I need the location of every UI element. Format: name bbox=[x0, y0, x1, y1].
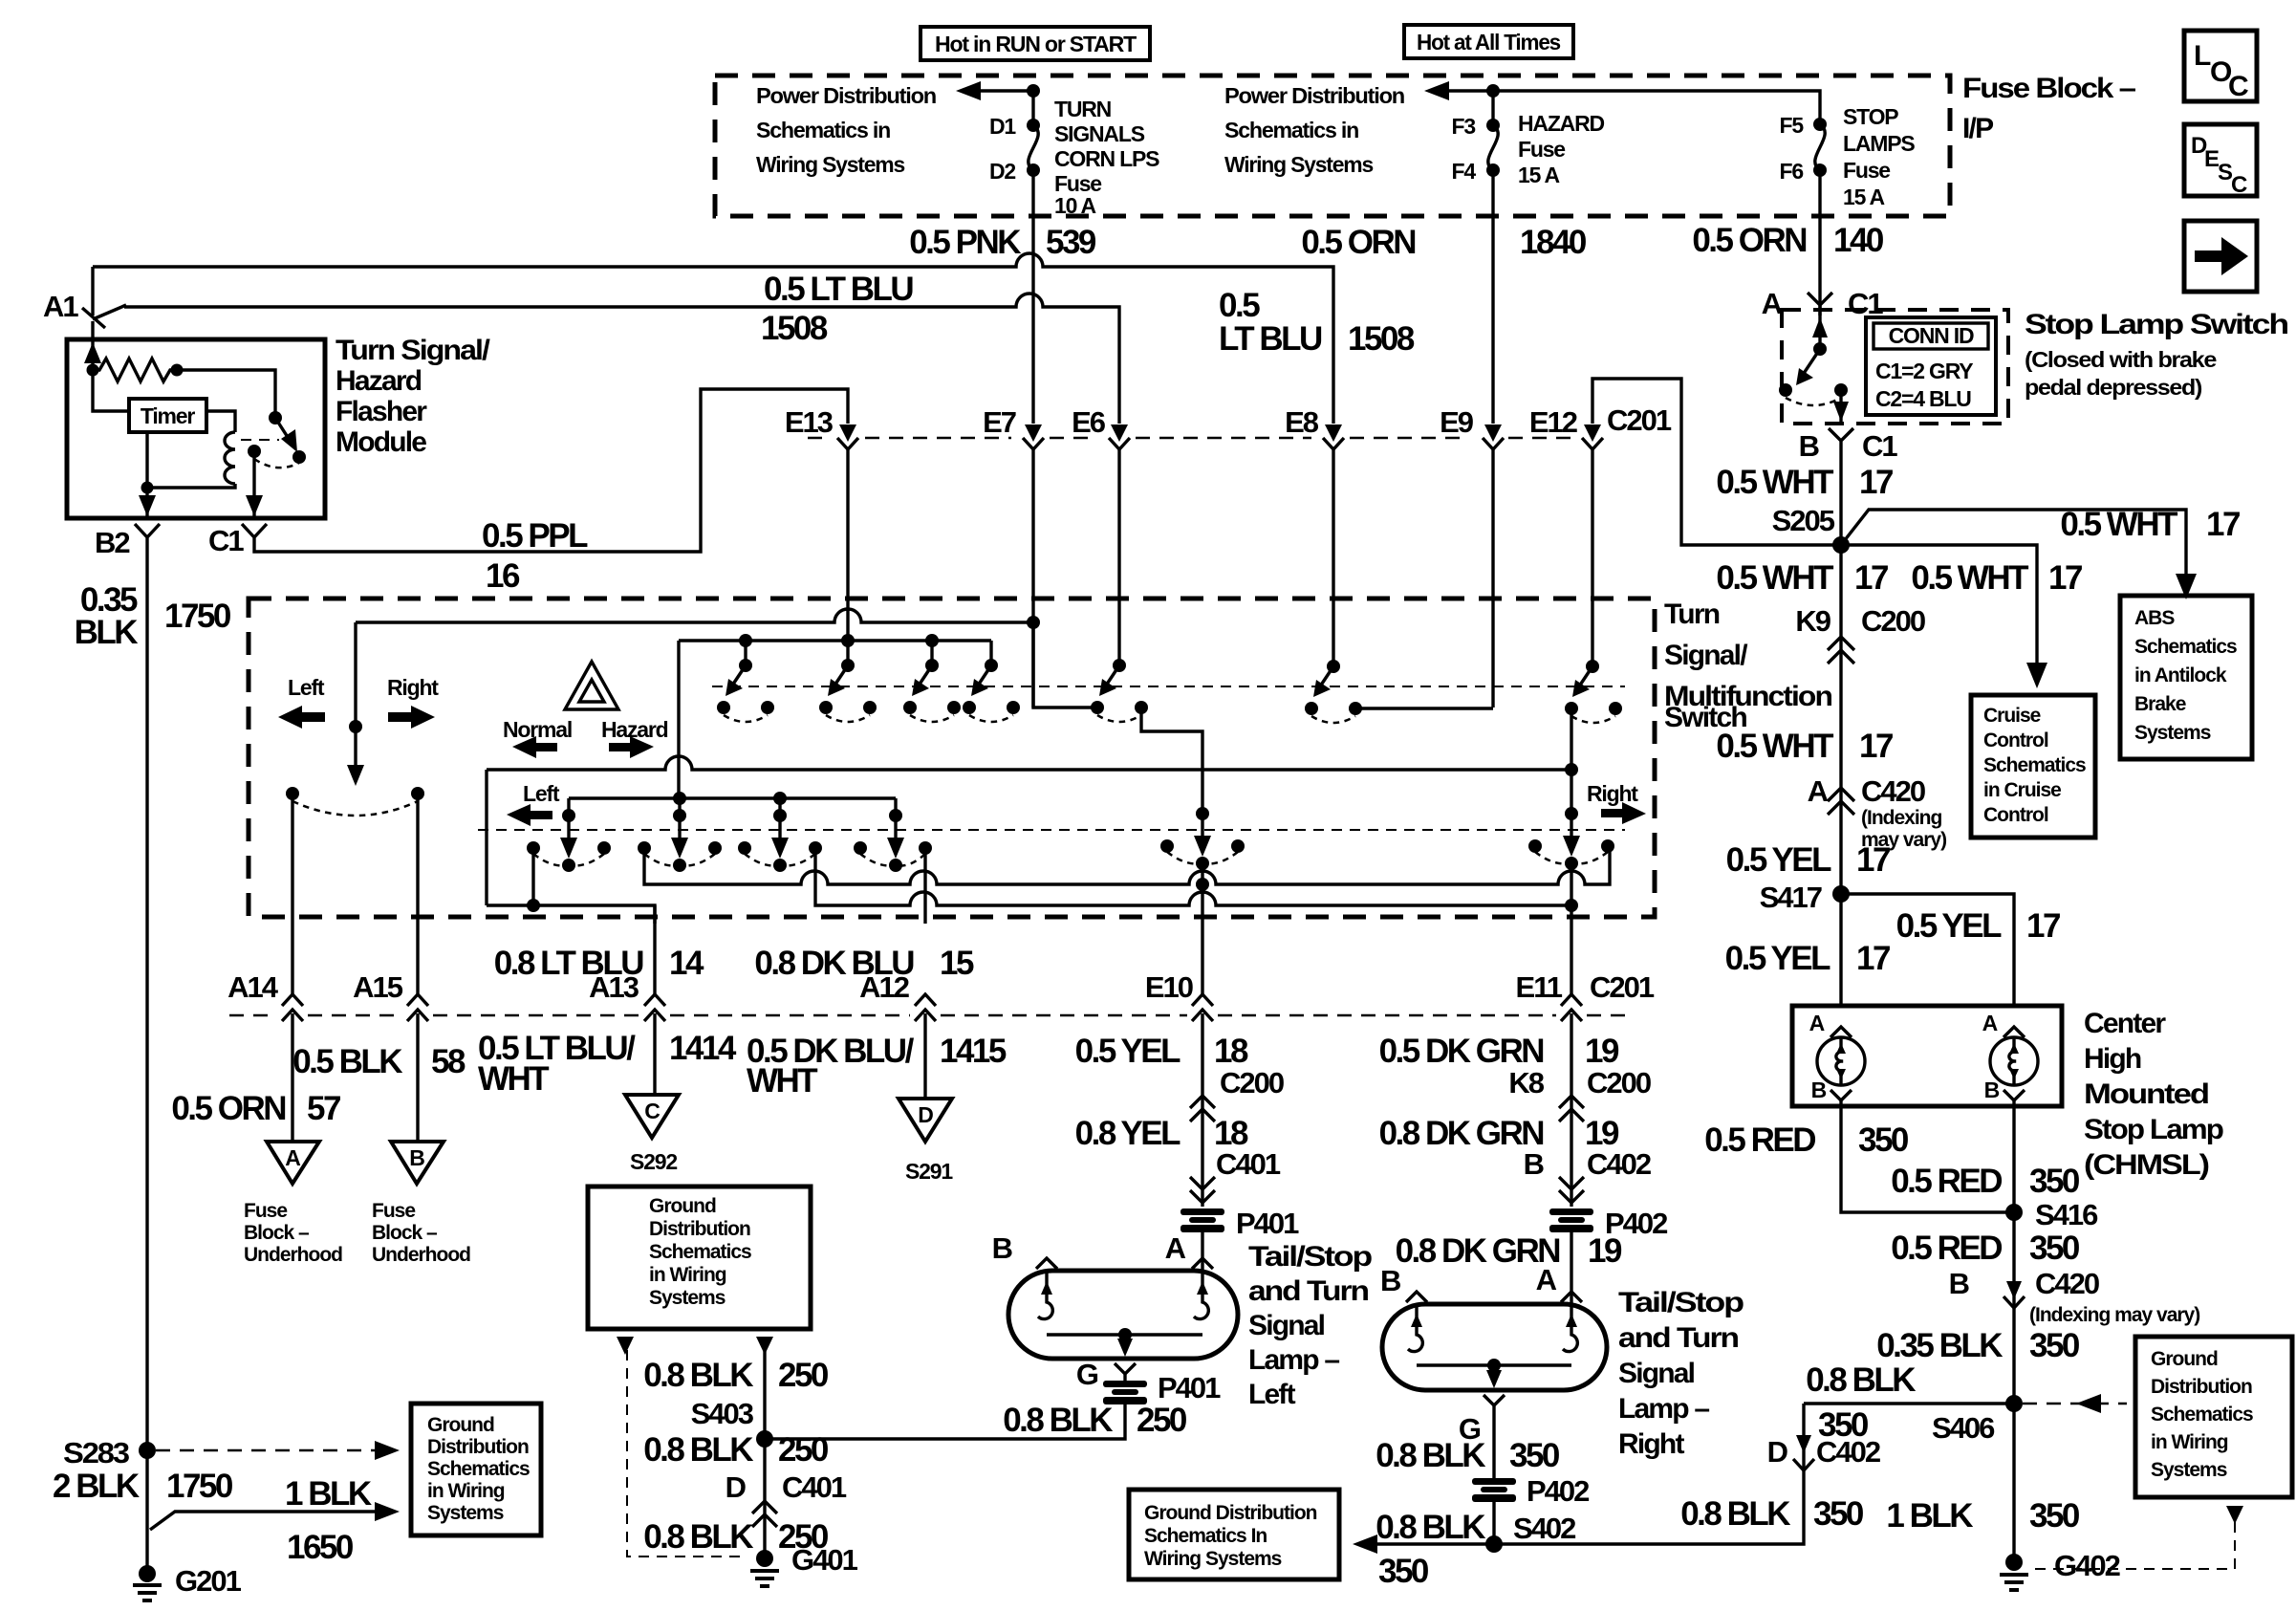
label: Hazard with arrow bbox=[601, 717, 668, 758]
node A pin of right tail lamp bbox=[1536, 1263, 1582, 1302]
wire: E11 exit bbox=[1570, 863, 1572, 994]
svg-text:Systems: Systems bbox=[2151, 1459, 2227, 1481]
wire label: 0.5 WHT 17 (below stop lamp switch) bbox=[1716, 464, 1893, 501]
svg-text:D: D bbox=[726, 1470, 747, 1504]
svg-text:0.5 BLK: 0.5 BLK bbox=[292, 1043, 402, 1080]
wire label: 0.5 RED 350 (below S416) bbox=[1891, 1230, 2080, 1267]
wire label: 0.8 LT BLU 14 / A13 bbox=[494, 945, 704, 982]
svg-text:0.5 ORN: 0.5 ORN bbox=[1301, 224, 1415, 261]
wire: dashed link S283 to ground distribution note bbox=[156, 1441, 400, 1460]
svg-text:K8: K8 bbox=[1508, 1066, 1544, 1099]
wire: E7 drop to hazard pole 5 contact bbox=[1033, 622, 1097, 708]
svg-text:in Antilock: in Antilock bbox=[2134, 664, 2227, 686]
svg-text:B: B bbox=[1811, 1078, 1827, 1102]
switch contact: turn pole 5 (E10) bbox=[1160, 807, 1245, 870]
svg-text:350: 350 bbox=[2029, 1163, 2080, 1200]
svg-text:350: 350 bbox=[1378, 1553, 1429, 1590]
svg-text:1414: 1414 bbox=[669, 1030, 737, 1067]
svg-text:A: A bbox=[1982, 1011, 1998, 1035]
svg-text:E7: E7 bbox=[983, 405, 1016, 439]
svg-text:Systems: Systems bbox=[427, 1502, 504, 1524]
wire label: 0.5 DK GRN 19 K8 C200 (E11 column) bbox=[1379, 1033, 1651, 1099]
svg-text:C201: C201 bbox=[1607, 403, 1672, 437]
svg-text:Fuse: Fuse bbox=[372, 1200, 415, 1222]
svg-text:0.5: 0.5 bbox=[1219, 287, 1260, 324]
svg-text:A: A bbox=[1762, 287, 1783, 320]
wire label: 0.35 BLK 1750 bbox=[75, 581, 231, 651]
wire: hazard link bus to right turn pole bbox=[487, 708, 1578, 905]
svg-text:Systems: Systems bbox=[649, 1287, 726, 1309]
connector C401 on E10 wire bbox=[1190, 1177, 1215, 1203]
svg-text:0.5 WHT: 0.5 WHT bbox=[1911, 559, 2028, 597]
svg-text:1840: 1840 bbox=[1520, 224, 1587, 261]
svg-text:Distribution: Distribution bbox=[427, 1436, 529, 1458]
svg-text:15 A: 15 A bbox=[1843, 185, 1885, 209]
label: Left with arrow (turn selector) bbox=[278, 675, 325, 729]
svg-text:Ground: Ground bbox=[649, 1195, 716, 1217]
wire label: 0.8 BLK S402 bbox=[1375, 1509, 1575, 1546]
wire label: 0.5 DK BLU/WHT 1415 bbox=[747, 1033, 1007, 1099]
svg-text:WHT: WHT bbox=[478, 1060, 549, 1098]
node E7 bus junction bbox=[1027, 616, 1040, 629]
connector: triangle C S292 bbox=[625, 1095, 679, 1174]
resistor inside flasher module bbox=[87, 359, 184, 381]
svg-text:350: 350 bbox=[2029, 1497, 2080, 1535]
svg-text:C201: C201 bbox=[1590, 970, 1655, 1004]
svg-text:Mounted: Mounted bbox=[2084, 1078, 2209, 1110]
svg-text:(Closed with brake: (Closed with brake bbox=[2025, 347, 2216, 372]
connector C402 on E11 wire bbox=[1559, 1177, 1584, 1203]
svg-text:Turn: Turn bbox=[1664, 599, 1720, 630]
svg-text:0.8 BLK: 0.8 BLK bbox=[1375, 1509, 1485, 1546]
svg-text:15 A: 15 A bbox=[1518, 163, 1560, 187]
svg-text:1508: 1508 bbox=[1348, 320, 1415, 358]
component: Tail/Stop and Turn Signal Lamp Right (bulb) bbox=[1382, 1304, 1607, 1390]
svg-text:Schematics: Schematics bbox=[427, 1458, 530, 1480]
wire: arrow to power distribution (left) bbox=[956, 81, 1040, 100]
svg-text:0.8 BLK: 0.8 BLK bbox=[1680, 1495, 1790, 1533]
svg-text:Schematics In: Schematics In bbox=[1144, 1525, 1267, 1547]
svg-text:16: 16 bbox=[486, 557, 520, 595]
wire: arrow to power distribution (right) bbox=[1424, 81, 1500, 100]
svg-text:Tail/Stop: Tail/Stop bbox=[1248, 1241, 1373, 1273]
node A1 connector of flasher module bbox=[43, 267, 126, 328]
svg-text:CONN ID: CONN ID bbox=[1889, 323, 1974, 348]
svg-text:C402: C402 bbox=[1587, 1147, 1651, 1181]
svg-text:STOP: STOP bbox=[1843, 104, 1898, 129]
svg-text:C401: C401 bbox=[782, 1470, 847, 1504]
wire label: 0.5 ORN 1840 bbox=[1301, 224, 1587, 261]
svg-text:WHT: WHT bbox=[747, 1062, 817, 1099]
svg-text:350: 350 bbox=[1818, 1406, 1869, 1444]
svg-text:17: 17 bbox=[1859, 728, 1893, 765]
svg-text:S291: S291 bbox=[905, 1159, 953, 1184]
svg-text:Left: Left bbox=[288, 675, 325, 700]
svg-text:C1: C1 bbox=[208, 524, 244, 557]
connector row C201: E7 bbox=[983, 216, 1044, 708]
svg-text:0.5 YEL: 0.5 YEL bbox=[1725, 940, 1830, 977]
svg-text:Lamp –: Lamp – bbox=[1248, 1344, 1339, 1376]
wire: E8 pole contacts joined to E9 bbox=[1305, 660, 1493, 723]
svg-text:0.5 YEL: 0.5 YEL bbox=[1075, 1033, 1180, 1070]
component: CHMSL box bbox=[1792, 1006, 2062, 1106]
svg-text:539: 539 bbox=[1046, 224, 1096, 261]
connector P402 (ground side) bbox=[1472, 1474, 1589, 1544]
svg-text:Block –: Block – bbox=[244, 1222, 310, 1244]
svg-text:Ground Distribution: Ground Distribution bbox=[1144, 1502, 1317, 1524]
svg-text:350: 350 bbox=[1813, 1495, 1864, 1533]
svg-text:Stop Lamp: Stop Lamp bbox=[2084, 1114, 2224, 1145]
icon box: LOC bbox=[2184, 31, 2257, 102]
icon: hazard warning triangle bbox=[565, 662, 618, 709]
svg-text:C: C bbox=[2231, 172, 2247, 198]
svg-text:Control: Control bbox=[1983, 729, 2048, 751]
svg-text:Brake: Brake bbox=[2134, 693, 2186, 715]
svg-text:C200: C200 bbox=[1220, 1066, 1284, 1099]
wire: A12 exit from turn pole 4 bbox=[923, 848, 926, 924]
svg-text:19: 19 bbox=[1585, 1033, 1619, 1070]
svg-text:F6: F6 bbox=[1780, 159, 1804, 184]
wire: A1 entry into module with up arrow bbox=[84, 321, 101, 370]
wire label: 0.5 PPL 16 bbox=[482, 517, 588, 595]
connector: triangle D S291 bbox=[899, 1099, 953, 1184]
svg-text:17: 17 bbox=[1854, 559, 1888, 597]
node S417 junction bbox=[1760, 881, 1850, 914]
svg-text:Wiring Systems: Wiring Systems bbox=[1224, 152, 1373, 177]
svg-text:in Wiring: in Wiring bbox=[427, 1480, 505, 1502]
svg-text:Schematics: Schematics bbox=[2151, 1404, 2253, 1426]
svg-text:B: B bbox=[1984, 1078, 2000, 1102]
svg-text:SIGNALS: SIGNALS bbox=[1054, 121, 1145, 146]
svg-text:0.5 LT BLU: 0.5 LT BLU bbox=[764, 271, 913, 308]
note: Power Distribution Schematics in Wiring Systems (left) bbox=[756, 83, 936, 177]
connector: A13 bbox=[589, 970, 665, 1095]
svg-text:P401: P401 bbox=[1236, 1207, 1299, 1240]
wire label: 0.5 WHT 17 (cruise branch) bbox=[1911, 559, 2082, 597]
svg-text:0.5 DK GRN: 0.5 DK GRN bbox=[1379, 1033, 1544, 1070]
svg-text:S416: S416 bbox=[2035, 1198, 2098, 1231]
svg-text:ABS: ABS bbox=[2134, 607, 2175, 629]
wire: A13 exit bbox=[653, 905, 656, 994]
svg-text:S283: S283 bbox=[63, 1436, 130, 1469]
node S416 junction bbox=[2005, 1198, 2098, 1231]
lamp: CHMSL left bulb bbox=[1809, 1011, 2014, 1212]
connector: E11 bbox=[1516, 970, 1582, 1021]
svg-text:1750: 1750 bbox=[166, 1468, 233, 1505]
node C1 connector bbox=[208, 524, 267, 557]
note box: Ground Distribution Schematics in Wiring Systems (right) bbox=[2135, 1337, 2292, 1497]
label: Turn Signal/Hazard Flasher Module bbox=[336, 335, 491, 458]
svg-text:350: 350 bbox=[2029, 1230, 2080, 1267]
svg-text:Center: Center bbox=[2084, 1008, 2166, 1039]
node A C420 connector (indexing may vary) bbox=[1808, 774, 1946, 851]
connector C200 on E11 wire bbox=[1559, 1013, 1584, 1207]
node G pin of right tail lamp bbox=[1459, 1395, 1505, 1478]
node S403 junction bbox=[691, 1397, 773, 1448]
switch contact: hazard pole 4 bbox=[963, 659, 1020, 722]
svg-text:0.5 ORN: 0.5 ORN bbox=[1692, 222, 1806, 259]
svg-text:0.8 DK GRN: 0.8 DK GRN bbox=[1396, 1232, 1560, 1270]
component: Stop Lamp Switch dashed box bbox=[1782, 310, 2008, 424]
svg-text:and Turn: and Turn bbox=[1618, 1322, 1739, 1354]
svg-text:Power Distribution: Power Distribution bbox=[1224, 83, 1404, 108]
svg-text:D1: D1 bbox=[989, 114, 1016, 139]
icon box: next arrow bbox=[2184, 221, 2257, 292]
lamp: CHMSL right bulb bbox=[1982, 1011, 2038, 1558]
svg-text:C420: C420 bbox=[1861, 774, 1925, 808]
wire: S402 ground bus with arrow to note box bbox=[1353, 1404, 1804, 1554]
connector row C201: E6 bbox=[1072, 405, 1130, 665]
node B pin of left tail lamp bbox=[992, 1231, 1057, 1269]
switch contact: hazard pole 1 bbox=[717, 659, 774, 722]
svg-text:Schematics: Schematics bbox=[2134, 636, 2237, 658]
wire: thin dashed hazard row line bbox=[712, 686, 1625, 687]
svg-text:G401: G401 bbox=[791, 1543, 858, 1577]
svg-text:0.5 YEL: 0.5 YEL bbox=[1726, 841, 1831, 879]
svg-text:17: 17 bbox=[2048, 559, 2082, 597]
svg-text:E10: E10 bbox=[1145, 970, 1193, 1004]
wire: dashed link S406 to ground distribution note (right) bbox=[2023, 1394, 2127, 1413]
svg-text:Schematics in: Schematics in bbox=[1224, 118, 1358, 142]
svg-text:E13: E13 bbox=[785, 405, 834, 439]
connector row C201: E8 bbox=[1285, 405, 1344, 666]
node S283 junction bbox=[63, 1436, 156, 1469]
node B2 connector bbox=[95, 524, 160, 559]
wire label: 0.5 LT BLU 1508 (upper run) bbox=[1219, 287, 1415, 358]
svg-text:0.8 DK BLU: 0.8 DK BLU bbox=[754, 945, 914, 982]
svg-text:0.5 PNK: 0.5 PNK bbox=[909, 224, 1021, 261]
svg-text:S417: S417 bbox=[1760, 881, 1822, 914]
wire: link L2 turn pole3 to E11 bbox=[815, 848, 1578, 912]
wire: 0.5 LT BLU 1508 lower run (A1 to E6) with hop over PNK wire bbox=[124, 294, 1119, 424]
svg-text:0.5 RED: 0.5 RED bbox=[1891, 1230, 2002, 1267]
label: Left with arrow (lower, lane change) bbox=[507, 781, 560, 826]
label box: Hot in RUN or START bbox=[921, 27, 1150, 60]
svg-text:BLK: BLK bbox=[75, 614, 139, 651]
node S205 junction bbox=[1772, 504, 1850, 554]
wire: 0.5 LT BLU 1508 upper run (A1 to E8) with hop over PNK wire bbox=[93, 253, 1333, 424]
svg-text:A14: A14 bbox=[227, 970, 279, 1004]
svg-text:B: B bbox=[1380, 1264, 1400, 1297]
svg-text:Underhood: Underhood bbox=[244, 1244, 342, 1266]
node S406 junction bbox=[1806, 1361, 2023, 1445]
coil inside flasher module bbox=[225, 432, 235, 484]
svg-text:140: 140 bbox=[1833, 222, 1884, 259]
svg-text:S406: S406 bbox=[1932, 1411, 1995, 1445]
svg-text:Wiring Systems: Wiring Systems bbox=[1144, 1548, 1282, 1570]
svg-text:S292: S292 bbox=[630, 1149, 677, 1174]
fuse block I/P dashed box bbox=[715, 76, 1950, 216]
wire label: 0.8 DK BLU 15 / A12 bbox=[754, 945, 974, 982]
svg-text:G201: G201 bbox=[175, 1564, 242, 1598]
wire: dashed connector row line C201 bbox=[808, 437, 1570, 440]
connector: A14 bbox=[227, 970, 303, 1142]
wire label: 0.5 RED 350 (above S416) bbox=[1891, 1163, 2080, 1200]
svg-text:17: 17 bbox=[1856, 841, 1890, 879]
wire label: 0.5 ORN 140 bbox=[1692, 222, 1884, 259]
wire label: 0.8 YEL 18 C401 bbox=[1075, 1115, 1281, 1181]
label: Tail/Stop and Turn Signal Lamp - Left bbox=[1248, 1241, 1373, 1410]
wire label: 0.8 BLK 250 (left lamp ground) bbox=[1003, 1402, 1187, 1439]
svg-text:S205: S205 bbox=[1772, 504, 1835, 537]
wire: S417 branch to right CHMSL lamp bbox=[1841, 894, 2014, 1006]
svg-text:Ground: Ground bbox=[427, 1414, 494, 1436]
wire label: 0.5 WHT 17 (ABS branch) bbox=[2060, 506, 2240, 543]
wire: arrows below ground distribution box bbox=[617, 1337, 773, 1556]
wire label: 0.8 DK GRN 19 B C402 bbox=[1379, 1115, 1651, 1181]
connector: triangle A to fuse block underhood bbox=[267, 1142, 319, 1184]
label: Stop Lamp Switch bbox=[2025, 309, 2288, 400]
svg-text:Cruise: Cruise bbox=[1983, 705, 2041, 727]
label: Center High Mounted Stop Lamp (CHMSL) bbox=[2084, 1008, 2224, 1181]
svg-text:C: C bbox=[2228, 71, 2249, 102]
wire: link L1 turn pole2 to right pole contact bbox=[644, 848, 1610, 891]
note box: Ground Distribution Schematics in Wiring Systems (left-bottom) bbox=[411, 1404, 541, 1535]
svg-text:G: G bbox=[1076, 1358, 1098, 1391]
svg-text:0.8 BLK: 0.8 BLK bbox=[643, 1431, 753, 1469]
svg-text:Signal/: Signal/ bbox=[1664, 640, 1748, 671]
svg-text:Schematics in: Schematics in bbox=[756, 118, 890, 142]
svg-text:14: 14 bbox=[669, 945, 704, 982]
svg-text:C: C bbox=[644, 1099, 660, 1123]
wire label: 0.8 BLK 350 (right lamp ground) bbox=[1375, 1437, 1560, 1474]
wire: thin dashed turn row line bbox=[478, 829, 1625, 831]
svg-text:0.5 YEL: 0.5 YEL bbox=[1896, 907, 2002, 945]
ground G402 bbox=[2000, 1549, 2120, 1590]
svg-text:0.8 YEL: 0.8 YEL bbox=[1075, 1115, 1180, 1152]
component: Timer box bbox=[129, 399, 206, 432]
svg-text:Fuse: Fuse bbox=[1518, 137, 1565, 162]
switch contact: hazard pole 5 (E6 feed) bbox=[1091, 659, 1148, 722]
svg-text:0.5 WHT: 0.5 WHT bbox=[1716, 559, 1833, 597]
svg-text:E8: E8 bbox=[1285, 405, 1319, 439]
svg-text:A: A bbox=[1165, 1231, 1186, 1265]
wire: E10 exit bbox=[1201, 863, 1203, 994]
svg-text:10 A: 10 A bbox=[1054, 193, 1096, 218]
svg-text:0.8 BLK: 0.8 BLK bbox=[643, 1357, 753, 1394]
wire label: 1 BLK 350 bbox=[1886, 1497, 2080, 1535]
node B C420 connector bbox=[1949, 1267, 2200, 1326]
svg-text:19: 19 bbox=[1588, 1232, 1622, 1270]
wire label: 0.5 YEL 17 (right branch) bbox=[1896, 907, 2060, 945]
connector: E10 bbox=[1145, 970, 1213, 1021]
svg-text:Fuse: Fuse bbox=[1843, 158, 1890, 183]
connector row C201: E9 bbox=[1440, 216, 1504, 708]
svg-text:C1: C1 bbox=[1848, 287, 1883, 320]
svg-text:Hot in RUN or START: Hot in RUN or START bbox=[935, 32, 1137, 56]
wire label: 0.8 DK GRN 19 (to lamp A) bbox=[1396, 1232, 1622, 1270]
svg-text:A15: A15 bbox=[353, 970, 403, 1004]
wire: S205 branch to cruise control bbox=[1841, 545, 2047, 688]
svg-text:B: B bbox=[1524, 1147, 1544, 1181]
svg-text:17: 17 bbox=[1856, 940, 1890, 977]
switch pole: left/right turn selector (A14/A15) bbox=[286, 622, 424, 816]
node K9 C200 connector bbox=[1795, 545, 1925, 1006]
wire label: 0.8 BLK 250 (above G401) bbox=[643, 1518, 829, 1556]
svg-text:0.8 LT BLU: 0.8 LT BLU bbox=[494, 945, 643, 982]
wire: resistor to switch pivot bbox=[177, 370, 275, 418]
svg-text:Module: Module bbox=[336, 426, 426, 458]
node D C402 connector bbox=[1767, 1435, 1880, 1470]
svg-text:17: 17 bbox=[1859, 464, 1893, 501]
wire label: 0.8 BLK 350 (above D C402) bbox=[1818, 1406, 1869, 1444]
fuse: TURN SIGNALS CORN LPS Fuse 10A (D1/D2) bbox=[989, 91, 1159, 218]
svg-text:S403: S403 bbox=[691, 1397, 754, 1430]
svg-text:1650: 1650 bbox=[287, 1529, 354, 1566]
ground G401 bbox=[750, 1543, 858, 1586]
svg-text:F5: F5 bbox=[1780, 113, 1805, 138]
svg-text:1750: 1750 bbox=[164, 598, 231, 635]
switch contact: turn pole 1 bbox=[527, 809, 611, 872]
wire: dashed connector row (bottom) bbox=[229, 1014, 1625, 1017]
connector row C201: E13 bbox=[785, 405, 858, 641]
note box: ABS Schematics in Antilock Brake Systems bbox=[2120, 596, 2252, 759]
svg-text:Fuse: Fuse bbox=[244, 1200, 287, 1222]
svg-text:1415: 1415 bbox=[940, 1033, 1007, 1070]
wire: left lamp ground to S403 bbox=[765, 1404, 1125, 1439]
svg-text:250: 250 bbox=[778, 1431, 829, 1469]
label: Tail/Stop and Turn Signal Lamp - Right bbox=[1618, 1287, 1744, 1460]
connector: A12 bbox=[859, 970, 936, 1099]
wire: switch common to C1 exit bbox=[246, 451, 263, 518]
svg-text:D2: D2 bbox=[989, 159, 1015, 184]
svg-text:E9: E9 bbox=[1440, 405, 1474, 439]
svg-text:F3: F3 bbox=[1452, 114, 1476, 139]
wire label: 0.5 ORN 57 bbox=[171, 1090, 340, 1127]
svg-text:C200: C200 bbox=[1861, 604, 1925, 638]
label: Right with arrow (turn selector) bbox=[387, 675, 439, 729]
svg-text:1 BLK: 1 BLK bbox=[285, 1475, 372, 1513]
svg-text:K9: K9 bbox=[1795, 604, 1830, 638]
wire: timer bottom to B2 exit bbox=[139, 432, 156, 518]
switch contact: turn pole 4 bbox=[854, 809, 932, 872]
node A pin of left tail lamp bbox=[1165, 1231, 1213, 1269]
svg-text:17: 17 bbox=[2206, 506, 2240, 543]
connector P401 (ground side) bbox=[1103, 1371, 1221, 1404]
connector C200 on E10 wire bbox=[1190, 1013, 1215, 1207]
wire: feed from hot at all times to stop lamps fuse bbox=[1493, 91, 1820, 124]
svg-text:0.5 PPL: 0.5 PPL bbox=[482, 517, 588, 555]
svg-text:F4: F4 bbox=[1452, 159, 1477, 184]
wire label: 0.5 LT BLU 1508 (lower run) bbox=[761, 271, 913, 347]
wire: coil bottom to timer bottom junction bbox=[147, 484, 235, 488]
svg-text:350: 350 bbox=[2029, 1327, 2080, 1364]
svg-text:and Turn: and Turn bbox=[1248, 1275, 1369, 1307]
svg-text:P401: P401 bbox=[1158, 1371, 1221, 1404]
svg-text:Fuse Block –: Fuse Block – bbox=[1962, 73, 2135, 104]
fuse: HAZARD Fuse 15A (F3/F4) bbox=[1452, 91, 1605, 216]
svg-text:B: B bbox=[1949, 1267, 1969, 1300]
svg-text:L: L bbox=[2194, 40, 2211, 72]
switch contact: hazard pole 3 bbox=[903, 659, 961, 722]
wire: turn signal bus bbox=[569, 792, 896, 816]
svg-text:350: 350 bbox=[1509, 1437, 1560, 1474]
wire: D C402 up to S406 bbox=[1804, 1402, 2014, 1404]
svg-text:0.35 BLK: 0.35 BLK bbox=[1876, 1327, 2003, 1364]
svg-text:Normal: Normal bbox=[503, 717, 572, 742]
node G pin of left tail lamp bbox=[1076, 1358, 1136, 1391]
switch contact: hazard pole 2 bbox=[819, 659, 877, 722]
svg-text:(CHMSL): (CHMSL) bbox=[2084, 1149, 2209, 1181]
wire: timer right to coil bbox=[206, 411, 235, 432]
svg-text:58: 58 bbox=[431, 1043, 466, 1080]
svg-text:Systems: Systems bbox=[2134, 722, 2211, 744]
svg-text:I/P: I/P bbox=[1962, 113, 1993, 144]
svg-text:S402: S402 bbox=[1513, 1512, 1575, 1545]
connector P402 (feed side) bbox=[1549, 1207, 1667, 1304]
svg-text:B: B bbox=[1799, 429, 1819, 463]
svg-text:57: 57 bbox=[307, 1090, 340, 1127]
